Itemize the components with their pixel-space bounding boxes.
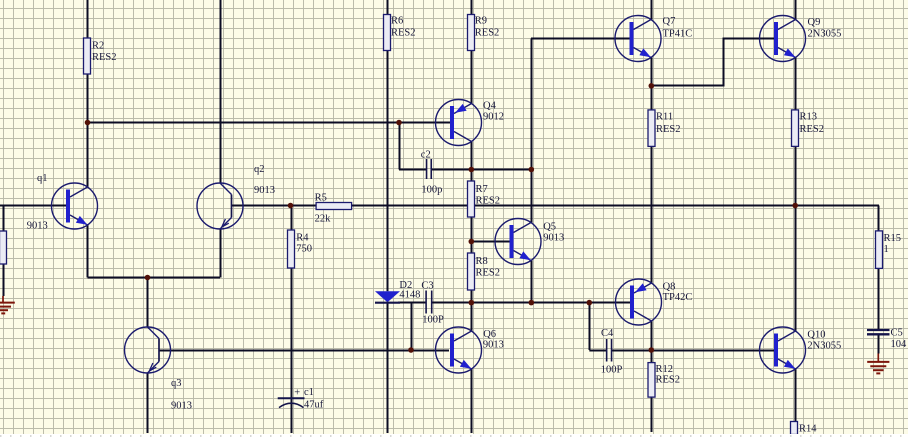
svg-text:RES2: RES2 <box>391 27 416 38</box>
value R5 <box>315 214 332 225</box>
resistor R5 <box>316 203 352 210</box>
wire R7 to R8 <box>471 217 473 253</box>
value Q7 <box>663 28 693 39</box>
svg-text:2N3055: 2N3055 <box>808 28 842 39</box>
svg-text:c2: c2 <box>421 150 431 161</box>
svg-text:R8: R8 <box>476 256 488 267</box>
svg-text:R15: R15 <box>884 233 902 244</box>
wire node row y=302 <box>398 302 426 304</box>
label Q9 <box>808 17 821 28</box>
svg-text:q1: q1 <box>37 173 48 184</box>
svg-text:c1: c1 <box>304 387 314 398</box>
svg-text:R5: R5 <box>315 192 327 203</box>
value R8 <box>476 267 501 278</box>
wire corner to C4 <box>589 350 606 352</box>
svg-text:100p: 100p <box>421 185 442 196</box>
diode D2 <box>375 291 400 302</box>
wire c1 bottom <box>291 398 293 433</box>
svg-text:1: 1 <box>884 244 889 255</box>
screenshot bottom edge <box>0 434 908 437</box>
svg-text:100P: 100P <box>422 315 444 326</box>
label R9 <box>475 15 487 26</box>
transistor Q8 TP42C (PNP) <box>616 279 662 325</box>
wire D2 cathode down <box>387 303 389 433</box>
value R4 <box>296 244 312 255</box>
value Q4 <box>483 112 504 123</box>
label R15 <box>884 233 902 244</box>
transistor Q5 9013 <box>495 219 541 265</box>
svg-text:C3: C3 <box>421 280 433 291</box>
wire Q4 bottom pin <box>471 142 473 170</box>
transistor Q7 TP41C <box>615 16 661 62</box>
resistor R1 (left edge) <box>0 231 7 264</box>
value R13 <box>800 124 825 135</box>
node R4 top <box>288 203 294 209</box>
wire Q9 emitter to R13 <box>795 58 797 111</box>
wire q2 collector to top <box>220 0 222 183</box>
transistor Q4 9012 (PNP) <box>436 100 482 146</box>
svg-text:Q9: Q9 <box>808 17 821 28</box>
wire bus y=122 R2 to Q4 base <box>88 122 451 124</box>
svg-text:9012: 9012 <box>483 112 504 123</box>
node Q4 base tap <box>396 120 402 126</box>
svg-text:RES2: RES2 <box>92 52 117 63</box>
value Q5 <box>543 233 564 244</box>
svg-text:q3: q3 <box>171 378 182 389</box>
wire C5 to ground <box>878 335 880 354</box>
label R12 <box>656 364 674 375</box>
label Q4 <box>483 101 497 112</box>
svg-text:Q8: Q8 <box>663 281 676 292</box>
resistor R9 <box>468 15 475 51</box>
value Q6 <box>483 339 504 350</box>
label C4 <box>601 328 614 339</box>
svg-text:R12: R12 <box>656 364 674 375</box>
label R14 <box>799 424 817 435</box>
node R8 bottom <box>469 300 475 306</box>
wire Q7 base h <box>531 38 630 40</box>
svg-text:q2: q2 <box>254 164 265 175</box>
wire Q10 emitter to R14 <box>795 369 797 422</box>
label Q6 <box>483 329 496 340</box>
wire corner to c2 <box>399 169 427 171</box>
svg-text:Q4: Q4 <box>483 101 497 112</box>
node Q10 collector bus <box>792 203 798 209</box>
svg-text:100P: 100P <box>601 365 623 376</box>
svg-text:TP42C: TP42C <box>663 292 693 303</box>
value q2 <box>254 185 275 196</box>
label q2 <box>254 164 265 175</box>
label R4 <box>296 233 309 244</box>
svg-text:Q7: Q7 <box>663 16 676 27</box>
value R2 <box>92 52 117 63</box>
node Q5 emitter <box>529 300 535 306</box>
wire Q7 emitter to dot <box>651 58 653 86</box>
resistor R7 <box>468 181 475 217</box>
transistor Q10 2N3055 <box>760 327 806 373</box>
wire R13 to Q10 collector <box>795 147 797 332</box>
node q3 collector <box>145 275 151 281</box>
wire left resistor to ground <box>3 264 5 296</box>
svg-text:RES2: RES2 <box>656 375 681 386</box>
resistor R12 <box>648 363 655 398</box>
capacitor c2 <box>427 159 432 179</box>
node Q7 emitter <box>649 83 655 89</box>
resistor R11 <box>648 110 655 146</box>
wire q3 collector riser <box>147 278 149 328</box>
wire left resistor drop <box>3 206 5 232</box>
svg-text:RES2: RES2 <box>476 195 501 206</box>
svg-text:R9: R9 <box>475 15 487 26</box>
label Q7 <box>663 16 676 27</box>
svg-text:750: 750 <box>296 244 312 255</box>
wire R9 to Q4 top pin <box>471 51 473 104</box>
wire junction to R7 <box>471 170 473 182</box>
svg-text:4148: 4148 <box>399 289 420 300</box>
node Q5 base <box>469 239 475 245</box>
wire R8 to node <box>471 290 473 303</box>
wire Q7 emitter to Q9 base <box>652 39 775 86</box>
svg-text:9013: 9013 <box>483 339 504 350</box>
wire c2 to R7 top junction <box>431 169 531 171</box>
wire Q6 collector <box>471 303 473 332</box>
node Q8 emitter/R12 <box>649 347 655 353</box>
wire q3 base to Q6 base <box>160 350 450 352</box>
value R9 <box>475 27 500 38</box>
wire Q5 collector <box>531 170 533 223</box>
wire R2 top feed <box>87 0 89 123</box>
wire R12 stub top <box>651 350 653 363</box>
wire Q9 collector top <box>795 0 797 20</box>
resistor R15 <box>876 231 883 269</box>
value Q8 <box>663 292 693 303</box>
transistor Q6 9013 <box>436 327 482 373</box>
wire R12 stub bottom <box>651 397 653 432</box>
svg-text:RES2: RES2 <box>475 27 500 38</box>
node C4 tap <box>587 300 593 306</box>
label R11 <box>656 112 673 123</box>
svg-text:R4: R4 <box>296 233 309 244</box>
value Q10 <box>807 340 841 351</box>
wire node row y=302 b <box>432 302 631 304</box>
capacitor c1 <box>278 398 305 407</box>
wire Q7 collector top <box>651 0 653 20</box>
resistor R13 <box>792 110 799 146</box>
capacitor C3 <box>426 291 432 314</box>
value q1 <box>27 221 48 232</box>
wire q2 emitter drop <box>220 229 222 278</box>
value c1 <box>304 400 324 411</box>
svg-text:104: 104 <box>891 339 908 350</box>
label D2 <box>399 280 412 291</box>
node D2/C3 to base wire <box>408 347 414 353</box>
value C5 <box>891 339 908 350</box>
svg-text:2N3055: 2N3055 <box>807 340 841 351</box>
transistor q1 9013 <box>52 183 98 229</box>
svg-text:Q10: Q10 <box>807 329 825 340</box>
capacitor C5 <box>867 330 890 334</box>
value q3 <box>171 401 192 412</box>
svg-text:47uf: 47uf <box>304 400 324 411</box>
node Q5 collector <box>529 167 535 173</box>
svg-text:+: + <box>294 387 300 398</box>
wire R15 top drop <box>878 206 880 232</box>
wire R15 to C5 <box>878 269 880 330</box>
svg-text:R6: R6 <box>391 15 403 26</box>
wire R6 D2 column <box>387 0 389 291</box>
capacitor C4 <box>607 339 612 362</box>
node R2/q1 collector <box>85 120 91 126</box>
svg-text:9013: 9013 <box>171 401 192 412</box>
label Q10 <box>807 329 825 340</box>
wire R4 c1 column <box>291 206 293 399</box>
wire Q5 emitter <box>531 261 533 303</box>
svg-text:RES2: RES2 <box>800 124 825 135</box>
value R6 <box>391 27 416 38</box>
wire Q5 base <box>471 241 509 243</box>
label R7 <box>476 184 488 195</box>
label Q5 <box>543 222 556 233</box>
transistor q2 9013 <box>197 183 243 229</box>
svg-text:R13: R13 <box>800 112 818 123</box>
wire q1 collector <box>87 123 89 188</box>
svg-text:9013: 9013 <box>543 233 564 244</box>
wire emitter join y=277 <box>88 277 221 279</box>
svg-text:C4: C4 <box>601 328 614 339</box>
label R5 <box>315 192 327 203</box>
svg-text:TP41C: TP41C <box>663 28 693 39</box>
resistor R4 <box>288 230 295 268</box>
resistor R14 <box>791 422 798 435</box>
label c1 plus <box>294 387 300 398</box>
svg-text:R2: R2 <box>92 40 104 51</box>
svg-text:9013: 9013 <box>27 221 48 232</box>
wire Q4 base drop corner <box>399 123 401 170</box>
value c2 <box>421 185 442 196</box>
resistor R2 <box>84 38 91 74</box>
label q3 <box>171 378 182 389</box>
svg-text:RES2: RES2 <box>476 267 501 278</box>
value C3 <box>422 315 444 326</box>
label c1 <box>304 387 314 398</box>
svg-text:R11: R11 <box>656 112 673 123</box>
label R2 <box>92 40 104 51</box>
wire C4 drop corner <box>589 303 591 350</box>
wire Q8 emitter <box>651 321 653 350</box>
label c2 <box>421 150 431 161</box>
label C3 <box>421 280 433 291</box>
value D2 <box>399 289 420 300</box>
wire Q7 base corner v <box>531 39 533 170</box>
wire q1 base <box>0 205 66 207</box>
label q1 <box>37 173 48 184</box>
ground (left) <box>0 296 15 313</box>
label R13 <box>800 112 818 123</box>
wire C4 to Q10 base <box>612 350 774 352</box>
svg-text:R14: R14 <box>799 424 817 435</box>
label C5 <box>891 328 903 339</box>
svg-text:C5: C5 <box>891 328 903 339</box>
wire Q6 emitter <box>471 369 473 433</box>
transistor Q9 2N3055 <box>760 16 806 62</box>
label R8 <box>476 256 488 267</box>
node R7 top <box>469 167 475 173</box>
wire R11 to Q8 collector <box>651 147 653 284</box>
label R6 <box>391 15 403 26</box>
svg-text:22k: 22k <box>315 214 332 225</box>
wire long bus y=205 q2 base to R15 <box>231 205 879 207</box>
wire C3 drop <box>411 303 413 350</box>
value R12 <box>656 375 681 386</box>
svg-text:Q5: Q5 <box>543 222 556 233</box>
svg-text:9013: 9013 <box>254 185 275 196</box>
value R15 <box>884 244 889 255</box>
value Q9 <box>808 28 842 39</box>
transistor q3 9013 <box>125 327 171 373</box>
value C4 <box>601 365 623 376</box>
value R7 <box>476 195 501 206</box>
label Q8 <box>663 281 676 292</box>
resistor R8 <box>468 253 475 290</box>
wire dot to R11 <box>651 86 653 110</box>
wire q3 emitter <box>147 373 149 433</box>
wire R9 column top <box>471 0 473 15</box>
ground (below C5) <box>867 354 889 374</box>
wire q1 emitter drop <box>87 225 89 278</box>
value R11 <box>656 124 681 135</box>
svg-text:R7: R7 <box>476 184 488 195</box>
svg-text:RES2: RES2 <box>656 124 681 135</box>
resistor R6 <box>384 15 391 51</box>
